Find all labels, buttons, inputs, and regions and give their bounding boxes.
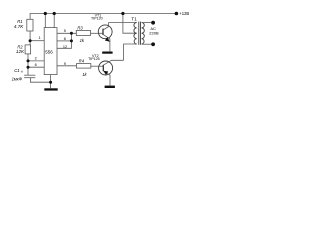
node pin6/C1 junction bbox=[27, 66, 30, 69]
wire pin 6 left bbox=[28, 66, 44, 68]
svg-text:1мкФ: 1мкФ bbox=[12, 76, 23, 81]
svg-text:C1: C1 bbox=[14, 68, 20, 73]
wire VT1 collector to T1 primary top bbox=[109, 22, 137, 24]
op-amp U1 556 IC body bbox=[44, 28, 57, 75]
svg-text:6: 6 bbox=[35, 63, 37, 67]
wire R2 bottom to C1 bbox=[27, 54, 29, 75]
svg-text:1: 1 bbox=[39, 36, 41, 40]
svg-text:4.7K: 4.7K bbox=[14, 24, 24, 29]
wire Vcc pin to rail bbox=[44, 14, 46, 28]
node R1/R2/pin1 junction bbox=[29, 39, 32, 42]
wire pin 8 bbox=[57, 40, 71, 42]
ground under VT2 bbox=[105, 86, 115, 88]
svg-text:2: 2 bbox=[35, 56, 37, 60]
transistor Q2 VT2 circle bbox=[99, 61, 113, 75]
wire pin 2 bbox=[28, 60, 44, 62]
resistor R2 bbox=[25, 45, 31, 54]
node AC output top terminal bbox=[151, 21, 155, 25]
transistor VT2 collector bbox=[103, 60, 123, 65]
node pin8 junction bbox=[70, 39, 73, 42]
wire pin 12 bbox=[57, 41, 71, 48]
resistor R1 bbox=[27, 19, 33, 31]
ground under IC bbox=[44, 88, 57, 90]
wire R3 to VT1 base bbox=[91, 32, 104, 34]
wire R1 bottom to R2 top bbox=[29, 31, 31, 45]
transformer T1 core bbox=[138, 22, 140, 45]
node IC-ground/C1 junction bbox=[49, 81, 52, 84]
node rail-Vcc junction bbox=[44, 12, 47, 15]
wire VT2 collector to T1 primary bottom bbox=[124, 44, 137, 60]
node AC output bottom terminal bbox=[151, 42, 155, 46]
svg-text:1k: 1k bbox=[82, 72, 87, 77]
wire secondary top lead bbox=[142, 22, 152, 24]
wire R4 to VT2 base bbox=[91, 65, 104, 67]
svg-text:+12В: +12В bbox=[179, 11, 189, 16]
ground under VT1 bbox=[102, 52, 112, 54]
node +12V terminal bbox=[175, 12, 179, 16]
transistor VT1 collector bbox=[103, 23, 109, 31]
svg-text:TIP120: TIP120 bbox=[91, 16, 103, 20]
transistor VT2 emitter bbox=[103, 71, 110, 86]
svg-text:T1: T1 bbox=[131, 16, 137, 21]
wire pin 1 bbox=[30, 40, 44, 42]
transistor VT2 base bar bbox=[102, 65, 104, 71]
wire +12V to T1 center tap bbox=[123, 14, 137, 34]
transistor VT1 base bar bbox=[102, 29, 104, 35]
wire pin 9 to R4 bbox=[57, 65, 77, 67]
node rail-center-tap junction bbox=[121, 12, 124, 15]
wire top +12V rail bbox=[30, 14, 176, 20]
node pin5 junction bbox=[70, 32, 73, 35]
transformer T1 primary winding bbox=[134, 23, 137, 45]
svg-text:12: 12 bbox=[63, 45, 67, 49]
svg-text:12K: 12K bbox=[16, 49, 25, 54]
transistor VT1 emitter arrow bbox=[105, 37, 110, 42]
svg-text:5: 5 bbox=[64, 29, 66, 33]
node R2/pin2 junction bbox=[27, 59, 30, 62]
svg-text:R4: R4 bbox=[79, 58, 85, 63]
svg-text:556: 556 bbox=[45, 49, 53, 54]
transistor VT2 emitter arrow bbox=[103, 71, 108, 75]
resistor R4 bbox=[77, 64, 91, 69]
resistor R3 bbox=[76, 30, 90, 35]
wire IC ground bbox=[50, 75, 52, 89]
svg-text:1k: 1k bbox=[80, 38, 85, 43]
transformer T1 secondary winding bbox=[142, 23, 145, 45]
svg-text:R3: R3 bbox=[77, 25, 83, 30]
svg-text:+: + bbox=[21, 69, 24, 74]
svg-text:220В: 220В bbox=[149, 31, 159, 36]
wire reset pin to rail bbox=[53, 14, 55, 28]
svg-text:9: 9 bbox=[64, 62, 66, 66]
capacitor C1 bbox=[24, 74, 35, 76]
wire pin5-pin8 tie bbox=[70, 33, 72, 41]
wire pin 5 to R3 bbox=[57, 32, 76, 34]
wire C1 bottom to ground node bbox=[30, 78, 50, 83]
svg-text:TIP125: TIP125 bbox=[88, 57, 100, 61]
node rail-reset junction bbox=[53, 12, 56, 15]
wire secondary bottom lead bbox=[142, 43, 152, 45]
transistor VT1 emitter bbox=[103, 34, 110, 51]
transistor Q1 VT1 circle bbox=[98, 25, 112, 39]
svg-text:8: 8 bbox=[64, 37, 66, 41]
